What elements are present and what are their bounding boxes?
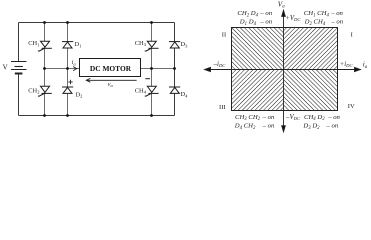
axis Va vertical — [282, 10, 286, 132]
diode D1 — [62, 42, 73, 48]
svg-text:D3: D3 — [181, 41, 189, 48]
svg-text:D1: D1 — [75, 41, 83, 48]
svg-text:–iDC: –iDC — [213, 61, 227, 68]
svg-text:CH1: CH1 — [28, 40, 40, 47]
quadrant IV hatch — [284, 70, 338, 111]
svg-text:CH2: CH2 — [28, 87, 40, 94]
svg-text:ia: ia — [363, 61, 368, 70]
svg-text:D4 CH2: D4 CH2 — [234, 123, 256, 131]
junction top rail / D1 branch — [66, 21, 69, 24]
junction armature wire / D1-D2 midpoint — [66, 67, 69, 70]
quadrant I hatch — [284, 28, 338, 70]
wire armature right — [141, 68, 175, 70]
diode D4 — [169, 87, 180, 93]
thyristor CH3 — [145, 41, 159, 51]
svg-text:Va: Va — [278, 0, 285, 9]
operating region box — [232, 28, 338, 111]
junction top rail / CH3 branch — [150, 21, 153, 24]
svg-text:D2 CH4: D2 CH4 — [304, 19, 326, 27]
svg-text:CH1 CH4: CH1 CH4 — [304, 10, 330, 18]
junction armature wire / CH1-CH2 midpoint — [43, 67, 46, 70]
svg-text:III: III — [219, 104, 226, 111]
polarity plus — [68, 80, 72, 84]
svg-text:D4: D4 — [181, 91, 189, 98]
svg-text:CH2 D4: CH2 D4 — [237, 10, 258, 18]
svg-text:– on: – on — [326, 123, 339, 130]
thyristor CH4 — [145, 86, 159, 96]
svg-text:ia: ia — [72, 59, 77, 66]
wire bottom rail — [19, 115, 175, 117]
junction armature wire / CH3-CH4 midpoint — [150, 67, 153, 70]
svg-text:CH4: CH4 — [135, 87, 147, 94]
motor box U1 — [80, 59, 141, 77]
quadrant II hatch — [232, 28, 284, 70]
svg-text:D3 D2: D3 D2 — [302, 123, 320, 131]
svg-text:+VDC: +VDC — [285, 15, 301, 22]
wire left rail upper — [18, 23, 20, 63]
svg-text:IV: IV — [348, 103, 355, 110]
diode D3 — [169, 42, 180, 48]
quadrant III hatch — [232, 70, 284, 111]
wire branch CH3-CH4 — [151, 23, 153, 116]
svg-text:CH3: CH3 — [135, 40, 147, 47]
svg-text:CH3 CH2: CH3 CH2 — [235, 114, 261, 122]
svg-text:– on: – on — [330, 10, 343, 17]
wire branch CH1-CH2 — [44, 23, 46, 116]
svg-text:– on: – on — [262, 114, 275, 121]
polarity minus — [145, 78, 150, 80]
svg-text:– on: – on — [327, 114, 340, 121]
svg-text:D1 D4: D1 D4 — [239, 19, 257, 27]
wire armature left — [45, 68, 80, 70]
svg-text:CH4 D2: CH4 D2 — [304, 114, 325, 122]
svg-text:– on: – on — [262, 123, 275, 130]
junction bottom rail / CH2 branch — [43, 114, 46, 117]
svg-text:–VDC: –VDC — [285, 114, 301, 121]
junction bottom rail / CH4 branch — [150, 114, 153, 117]
svg-text:– on: – on — [330, 19, 343, 26]
thyristor CH1 — [38, 41, 52, 51]
junction armature wire / D3-D4 midpoint — [173, 67, 176, 70]
svg-text:V: V — [3, 64, 8, 72]
wire branch D3-D4 — [174, 23, 176, 116]
svg-text:+iDC: +iDC — [340, 61, 354, 68]
voltage arrow va — [86, 78, 136, 82]
current arrow ia — [73, 67, 76, 71]
junction bottom rail / D2 branch — [66, 114, 69, 117]
diode D2 — [62, 87, 73, 93]
battery V — [11, 62, 27, 74]
svg-text:va: va — [108, 82, 114, 88]
svg-text:II: II — [222, 32, 226, 39]
wire branch D1-D2 — [67, 23, 69, 116]
svg-text:– on: – on — [259, 19, 272, 26]
svg-text:I: I — [351, 32, 353, 39]
svg-text:D2: D2 — [76, 91, 84, 98]
junction top rail / CH1 branch — [43, 21, 46, 24]
thyristor CH2 — [38, 86, 52, 96]
wire left rail lower — [18, 73, 20, 115]
axis ia horizontal — [205, 67, 361, 71]
svg-text:– on: – on — [259, 10, 272, 17]
wire top rail — [19, 22, 175, 24]
svg-text:DC MOTOR: DC MOTOR — [90, 64, 132, 73]
